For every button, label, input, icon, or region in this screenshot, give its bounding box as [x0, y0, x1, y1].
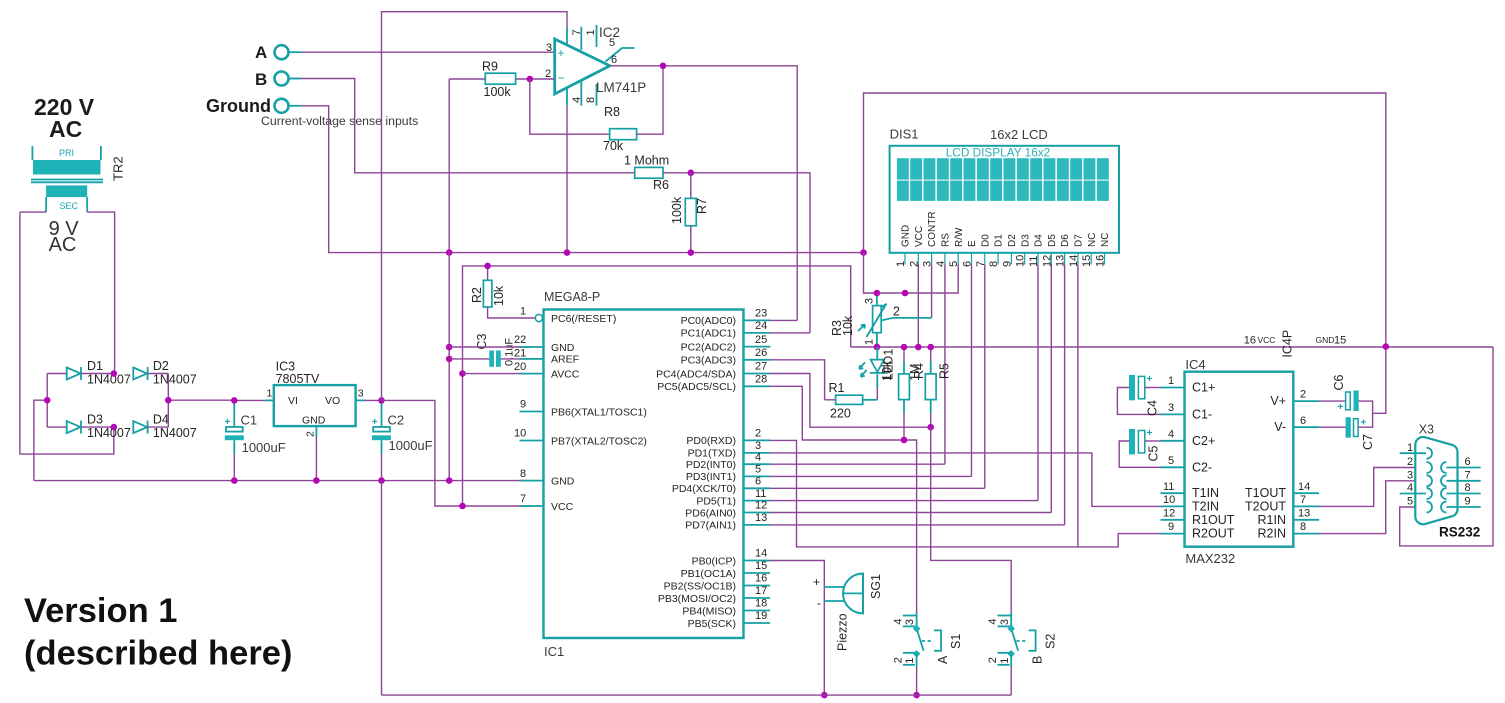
node op-amp output — [660, 63, 667, 70]
svg-text:17: 17 — [755, 585, 767, 597]
wire IC1 pin11 to LCD D4 — [770, 500, 1038, 502]
svg-text:21: 21 — [514, 348, 526, 360]
X3 pin 6 — [1441, 456, 1481, 473]
svg-text:C1: C1 — [241, 413, 258, 428]
MAX232 pin 2 V+ — [1270, 389, 1319, 408]
svg-text:3: 3 — [755, 440, 761, 452]
svg-text:22: 22 — [514, 334, 526, 346]
node op-amp pin4 on ground rail — [564, 249, 571, 256]
wire T2OUT to X3 pin2 — [1319, 468, 1426, 507]
display pin number labels — [895, 255, 1107, 267]
wire S1 bottom to rail — [916, 667, 918, 695]
svg-text:D3: D3 — [87, 413, 103, 427]
IC1 pin 22 GND — [514, 334, 575, 354]
svg-text:Ground: Ground — [206, 96, 271, 116]
potentiometer R3 10k — [830, 293, 900, 347]
svg-text:VI: VI — [288, 395, 298, 407]
svg-text:S1: S1 — [949, 634, 963, 649]
svg-text:PD7(AIN1): PD7(AIN1) — [685, 520, 736, 532]
IC1 pin 21 AREF — [514, 348, 579, 366]
svg-text:PB4(MISO): PB4(MISO) — [682, 605, 736, 617]
svg-text:D3: D3 — [1020, 234, 1031, 247]
X3 pin 5 — [1407, 496, 1432, 513]
svg-text:28: 28 — [755, 374, 767, 386]
IC4P power rail labels — [1244, 330, 1346, 358]
svg-text:C1+: C1+ — [1192, 381, 1215, 395]
wire +5 feed up to top rail and op-amp pin7 — [382, 12, 568, 401]
svg-text:VO: VO — [325, 395, 340, 407]
svg-text:DIS1: DIS1 — [890, 127, 919, 142]
node GND vertical pin22 — [446, 344, 453, 351]
svg-text:D5: D5 — [1047, 234, 1058, 247]
MAX232 pin 9 R2OUT — [1161, 521, 1235, 540]
IC1 pin 8 GND — [520, 468, 575, 488]
svg-text:PB7(XTAL2/TOSC2): PB7(XTAL2/TOSC2) — [551, 435, 647, 447]
wire IC1 pin12 to LCD D5 — [770, 512, 1051, 514]
svg-text:PRI: PRI — [59, 148, 74, 158]
svg-text:4: 4 — [987, 618, 999, 624]
svg-text:D1: D1 — [994, 234, 1005, 247]
svg-text:PD6(AIN0): PD6(AIN0) — [685, 507, 736, 519]
label 220 V AC — [34, 94, 95, 142]
svg-text:AREF: AREF — [551, 354, 579, 366]
wire LCD pin3 contrast to pot — [931, 265, 933, 318]
svg-text:6: 6 — [1300, 415, 1306, 427]
node C2 top +5 — [378, 397, 385, 404]
svg-text:8: 8 — [520, 468, 526, 480]
node D1-D2 junction — [111, 370, 118, 377]
wire IC3 GND pin to ground rail — [315, 437, 317, 481]
svg-text:11: 11 — [755, 488, 766, 500]
svg-text:IC4: IC4 — [1185, 357, 1205, 372]
svg-text:C2+: C2+ — [1192, 434, 1215, 448]
wire LCD pin13 D6 down — [1064, 265, 1066, 525]
svg-text:10k: 10k — [841, 315, 855, 336]
svg-text:10: 10 — [514, 428, 526, 440]
node ground branch LCD pin1 — [902, 290, 909, 297]
svg-text:3: 3 — [358, 388, 364, 400]
wire op-amp pin4 to ground rail — [566, 106, 568, 253]
svg-text:PD5(T1): PD5(T1) — [696, 495, 736, 507]
svg-text:8: 8 — [585, 97, 597, 103]
svg-text:X3: X3 — [1419, 423, 1434, 437]
svg-text:IC4P: IC4P — [1281, 330, 1295, 358]
capacitor C3 0.1uF — [449, 333, 531, 366]
wire ground loop rectangle around LCD — [864, 93, 1386, 347]
bottom ground rail — [382, 694, 1012, 696]
svg-text:LED1: LED1 — [882, 349, 896, 380]
resistor R4 — [899, 347, 926, 440]
svg-text:MAX232: MAX232 — [1185, 551, 1235, 566]
wire IC1 pin14 to piezo — [770, 561, 824, 696]
svg-text:CONTR: CONTR — [927, 211, 938, 247]
IC U IC4 MAX232 box — [1185, 357, 1294, 566]
svg-text:C7: C7 — [1361, 434, 1375, 450]
svg-text:PC4(ADC4/SDA): PC4(ADC4/SDA) — [656, 368, 736, 380]
IC1 right pins PD group — [672, 428, 770, 532]
svg-text:4: 4 — [893, 618, 905, 624]
wire LCD pin6 E down — [971, 265, 973, 477]
op-amp IC2 pin 8 lead — [581, 81, 597, 106]
svg-text:15: 15 — [755, 560, 767, 572]
svg-text:R8: R8 — [604, 105, 620, 119]
wire LCD pin14 D7 down — [1077, 265, 1079, 547]
svg-text:PD0(RXD): PD0(RXD) — [686, 435, 736, 447]
transformer TR2 secondary — [46, 185, 87, 212]
svg-text:V+: V+ — [1270, 394, 1286, 408]
svg-text:PB2(SS/OC1B): PB2(SS/OC1B) — [664, 580, 736, 592]
svg-text:1000uF: 1000uF — [389, 438, 433, 453]
svg-text:R1: R1 — [829, 381, 845, 395]
op-amp IC2 pin 5 lead — [606, 37, 635, 66]
voltage regulator IC3 7805TV — [265, 360, 365, 438]
svg-text:15: 15 — [1334, 335, 1346, 347]
node R9 left on ground rail — [446, 249, 453, 256]
wire IC1 pin5 to LCD E — [770, 475, 972, 477]
svg-text:2: 2 — [545, 68, 551, 80]
MAX232 pin 4 C2+ — [1161, 429, 1216, 448]
svg-text:PB0(ICP): PB0(ICP) — [692, 555, 736, 567]
svg-text:R1OUT: R1OUT — [1192, 513, 1235, 527]
wire S2 bottom to rail — [1010, 667, 1012, 695]
wire IC1 pin27 to R5 bottom — [770, 374, 931, 428]
svg-text:7805TV: 7805TV — [276, 372, 320, 386]
svg-text:+: + — [1338, 402, 1344, 413]
svg-text:PB6(XTAL1/TOSC1): PB6(XTAL1/TOSC1) — [551, 406, 647, 418]
svg-text:B: B — [1031, 656, 1045, 664]
svg-text:D2: D2 — [1007, 234, 1018, 247]
node C6 C7 to ground rectangle — [1383, 343, 1390, 350]
wire bridge right node — [168, 374, 234, 428]
wire R2IN to X3 pin3 — [1319, 481, 1426, 534]
wire +5 to IC1 VCC — [382, 400, 532, 506]
wire GND pin22 — [449, 346, 531, 348]
svg-text:C2: C2 — [388, 413, 405, 428]
capacitor C4 — [1117, 374, 1160, 416]
svg-text:25: 25 — [755, 334, 767, 346]
display character cells — [897, 158, 1109, 201]
wire bridge left node — [34, 374, 47, 481]
node GND vertical on ground rail — [446, 477, 453, 484]
svg-text:4: 4 — [755, 451, 761, 463]
node R4 top on +5 node line — [901, 344, 908, 351]
svg-text:R2: R2 — [470, 287, 484, 303]
svg-text:RS232: RS232 — [1439, 525, 1480, 540]
svg-text:T1OUT: T1OUT — [1245, 486, 1286, 500]
svg-text:TR2: TR2 — [111, 156, 126, 181]
node R4 bottom — [901, 437, 908, 444]
IC1 right pins PC group — [656, 308, 770, 394]
capacitor C6 — [1319, 347, 1386, 414]
wire IC1 pin3 TXD to MAX232 T2IN — [770, 453, 1161, 507]
node op-amp inverting input — [527, 76, 534, 83]
node R6-R7 junction — [688, 170, 695, 177]
svg-text:D4: D4 — [1034, 234, 1045, 247]
svg-text:+: + — [1147, 374, 1153, 385]
svg-text:VCC: VCC — [914, 226, 925, 247]
svg-text:PC6(/RESET): PC6(/RESET) — [551, 313, 616, 325]
MAX232 pin 13 R1IN — [1258, 507, 1320, 526]
resistor R9 100k — [449, 60, 530, 100]
diode D3 1N4007 — [47, 413, 131, 440]
svg-text:13: 13 — [1298, 507, 1310, 519]
svg-text:VCC: VCC — [551, 501, 574, 513]
svg-text:14: 14 — [755, 548, 767, 560]
MAX232 pin 5 C2- — [1161, 455, 1213, 474]
svg-text:7: 7 — [1465, 469, 1471, 481]
IC1 pin 1 PC6(/RESET) — [520, 306, 616, 325]
svg-text:12: 12 — [1163, 507, 1175, 519]
svg-text:6: 6 — [755, 476, 761, 488]
node R7 bottom on ground rail — [688, 249, 695, 256]
svg-text:8: 8 — [1300, 521, 1306, 533]
display pin stubs — [905, 253, 1105, 265]
svg-text:7: 7 — [1300, 494, 1306, 506]
wire ground rail to X3 pin5 — [1400, 347, 1493, 546]
svg-text:1N4007: 1N4007 — [87, 373, 131, 387]
svg-text:NC: NC — [1087, 233, 1098, 247]
svg-text:A: A — [255, 43, 267, 62]
svg-text:6: 6 — [1465, 456, 1471, 468]
wire IC1 pin28 to R4 bottom and S1 — [770, 386, 917, 612]
svg-text:PD3(INT1): PD3(INT1) — [686, 471, 736, 483]
resistor R7 100k — [670, 173, 709, 253]
wire IC1 pin26 to R1 — [770, 360, 825, 400]
svg-text:12: 12 — [755, 500, 767, 512]
wire LCD pin4 RS down — [944, 265, 946, 465]
wire op-amp output — [610, 66, 797, 321]
svg-text:VCC: VCC — [1258, 335, 1276, 345]
X3 pin 7 — [1441, 469, 1481, 486]
svg-text:GND: GND — [551, 475, 575, 487]
svg-text:RS: RS — [941, 233, 952, 247]
svg-text:4: 4 — [1407, 482, 1413, 494]
wire terminal B to R6 line — [289, 79, 635, 173]
svg-text:IC1: IC1 — [544, 644, 564, 659]
diode D1 1N4007 — [47, 359, 131, 387]
IC1 right pins PB group — [658, 548, 770, 630]
svg-text:-: - — [817, 596, 821, 610]
node D3-D4 junction — [111, 424, 118, 431]
svg-text:1: 1 — [864, 339, 876, 345]
wire terminal A to op-amp pin3 — [289, 51, 555, 53]
node C1 top — [231, 397, 238, 404]
svg-text:2: 2 — [893, 657, 905, 663]
wire AVCC pin20 — [463, 373, 532, 375]
svg-text:D2: D2 — [153, 359, 169, 373]
resistor R8 70k — [603, 105, 637, 153]
op-amp IC2 pin 1 lead — [581, 25, 597, 50]
svg-text:T1IN: T1IN — [1192, 486, 1219, 500]
MAX232 pin 14 T1OUT — [1245, 481, 1319, 500]
X3 pin 3 — [1407, 469, 1432, 486]
IC1 pin 10 PB7 — [514, 428, 647, 448]
svg-text:PD4(XCK/T0): PD4(XCK/T0) — [672, 483, 736, 495]
capacitor C5 — [1119, 428, 1160, 467]
svg-text:R4: R4 — [912, 363, 926, 379]
svg-text:GND: GND — [901, 225, 912, 247]
wire IC1 pin2 RXD to MAX232 R2OUT — [770, 440, 1161, 547]
svg-text:2: 2 — [755, 428, 761, 440]
wire IC1 pin24 to R6R7 riser — [770, 332, 810, 334]
svg-text:3: 3 — [1168, 402, 1174, 414]
node C2 bottom on ground rail — [378, 477, 385, 484]
node bridge left junction — [44, 397, 51, 404]
node R3 pin3 on ground branch — [874, 290, 881, 297]
svg-text:3: 3 — [1407, 469, 1413, 481]
ground rail left — [34, 480, 532, 482]
svg-text:16x2 LCD: 16x2 LCD — [990, 127, 1048, 142]
MAX232 pin 6 V- — [1274, 415, 1319, 434]
switch S2 — [987, 612, 1058, 667]
wire +5 node line to MAX232 power — [851, 346, 1493, 348]
node R5 bottom — [927, 424, 934, 431]
node IC3 GND on ground rail — [313, 477, 320, 484]
svg-text:24: 24 — [755, 320, 767, 332]
svg-text:3: 3 — [546, 42, 552, 54]
svg-text:1: 1 — [904, 658, 916, 664]
svg-text:+: + — [372, 417, 378, 428]
svg-text:PB5(SCK): PB5(SCK) — [688, 618, 736, 630]
svg-text:220: 220 — [830, 407, 851, 421]
MAX232 pin 1 C1+ — [1161, 375, 1216, 395]
svg-text:9: 9 — [520, 399, 526, 411]
wire secondary right terminal down — [87, 212, 114, 373]
svg-text:1: 1 — [267, 388, 273, 400]
X3 pin 9 — [1441, 496, 1481, 513]
svg-text:NC: NC — [1100, 233, 1111, 247]
svg-text:3: 3 — [999, 619, 1011, 625]
svg-text:3: 3 — [904, 619, 916, 625]
svg-text:PC2(ADC2): PC2(ADC2) — [681, 341, 736, 353]
svg-text:23: 23 — [755, 308, 767, 320]
svg-text:1000uF: 1000uF — [242, 440, 286, 455]
svg-text:SG1: SG1 — [869, 574, 883, 599]
wire IC1 pin13 to LCD D6 — [770, 524, 1065, 526]
display pin name labels — [901, 211, 1112, 247]
node R3 pin1 on +5 node line — [874, 344, 881, 351]
MAX232 pin 7 T2OUT — [1245, 494, 1319, 513]
capacitor C1 1000uF — [225, 400, 286, 480]
svg-text:C5: C5 — [1147, 445, 1161, 461]
svg-text:PC0(ADC0): PC0(ADC0) — [681, 315, 736, 327]
resistor R2 10k — [470, 266, 535, 318]
node R2 top on +5 line — [484, 263, 491, 270]
wire R8 right to output node — [637, 66, 663, 134]
connector X3 body — [1415, 423, 1457, 525]
svg-text:PD2(INT0): PD2(INT0) — [686, 459, 736, 471]
svg-text:R7: R7 — [695, 198, 709, 214]
buzzer SG1 Piezzo — [813, 574, 883, 652]
op-amp U IC2 LM741P triangle — [555, 39, 610, 94]
wire rectifier output to IC3 VI — [234, 399, 265, 401]
svg-text:C4: C4 — [1146, 400, 1160, 416]
wire LCD pin7 D0 down — [984, 265, 986, 489]
terminal B — [255, 70, 289, 89]
svg-text:16: 16 — [755, 573, 767, 585]
svg-text:1: 1 — [1407, 442, 1413, 454]
MAX232 pin 3 C1- — [1161, 402, 1213, 421]
svg-text:R2OUT: R2OUT — [1192, 527, 1235, 541]
label 9 V AC — [49, 218, 80, 256]
svg-text:18: 18 — [755, 598, 767, 610]
svg-text:GND: GND — [1316, 335, 1335, 345]
wire LCD pin2 down to plus5 node line — [917, 265, 919, 348]
svg-text:T2OUT: T2OUT — [1245, 499, 1286, 513]
X3 pin 8 — [1441, 482, 1481, 499]
MAX232 pin 11 T1IN — [1161, 481, 1220, 500]
svg-text:1N4007: 1N4007 — [87, 426, 131, 440]
svg-text:Version 1: Version 1 — [24, 592, 177, 630]
X3 pin 2 — [1407, 456, 1432, 473]
svg-text:+: + — [813, 575, 820, 589]
svg-text:9: 9 — [1168, 521, 1174, 533]
svg-text:10k: 10k — [492, 285, 506, 306]
svg-text:PC1(ADC1): PC1(ADC1) — [681, 328, 736, 340]
wire IC1 pin4 to LCD RS — [770, 463, 945, 465]
svg-text:D0: D0 — [980, 234, 991, 247]
svg-text:20: 20 — [514, 361, 526, 373]
svg-text:PC5(ADC5/SCL): PC5(ADC5/SCL) — [657, 381, 736, 393]
svg-text:19: 19 — [755, 610, 767, 622]
svg-text:D7: D7 — [1074, 234, 1085, 247]
svg-text:6: 6 — [611, 54, 617, 66]
svg-text:1 Mohm: 1 Mohm — [624, 154, 669, 168]
node piezo on bottom rail — [821, 692, 828, 699]
svg-text:C6: C6 — [1332, 374, 1346, 390]
X3 pin 1 — [1400, 442, 1432, 459]
svg-text:C2-: C2- — [1192, 460, 1212, 474]
svg-text:LCD DISPLAY 16x2: LCD DISPLAY 16x2 — [946, 146, 1050, 160]
svg-text:C1-: C1- — [1192, 407, 1212, 421]
svg-text:A: A — [936, 655, 950, 664]
wire IC3 VO to +5 node — [365, 399, 382, 401]
IC1 pin 7 VCC — [520, 493, 574, 513]
svg-text:14: 14 — [1298, 481, 1310, 493]
MAX232 pin 12 R1OUT — [1161, 507, 1235, 526]
display DIS1 LCD box — [890, 146, 1119, 253]
svg-text:3: 3 — [864, 298, 876, 304]
wire R9-left vertical continues to IC1 GND rail — [448, 253, 450, 481]
svg-text:PD1(TXD): PD1(TXD) — [688, 448, 736, 460]
svg-text:2: 2 — [305, 431, 317, 437]
wire ground branch to LCD pin1 and pin5 — [864, 253, 959, 293]
terminal Ground — [206, 96, 289, 116]
svg-text:B: B — [255, 70, 267, 89]
svg-text:5: 5 — [1168, 455, 1174, 467]
wire +5 branch from VCC line up and right — [463, 266, 851, 506]
svg-text:T2IN: T2IN — [1192, 499, 1219, 513]
svg-text:GND: GND — [302, 415, 326, 427]
node R5 top on +5 node line — [927, 344, 934, 351]
svg-text:R9: R9 — [482, 60, 498, 74]
svg-text:7: 7 — [520, 493, 526, 505]
resistor R1 220 — [825, 381, 863, 421]
svg-text:LM741P: LM741P — [596, 80, 646, 95]
svg-text:27: 27 — [755, 361, 767, 373]
svg-text:100k: 100k — [484, 85, 512, 99]
node C1 bottom on ground rail — [231, 477, 238, 484]
capacitor C7 — [1319, 413, 1375, 450]
node GND vertical pin21 — [446, 356, 453, 363]
MAX232 pin 10 T2IN — [1161, 494, 1220, 513]
svg-text:E: E — [967, 240, 978, 247]
svg-text:10: 10 — [1163, 494, 1175, 506]
terminal A — [255, 43, 289, 62]
svg-text:Piezzo: Piezzo — [836, 613, 850, 651]
wire R5 net down to switch S2 — [931, 427, 1012, 612]
svg-text:Current-voltage sense inputs: Current-voltage sense inputs — [261, 114, 418, 128]
